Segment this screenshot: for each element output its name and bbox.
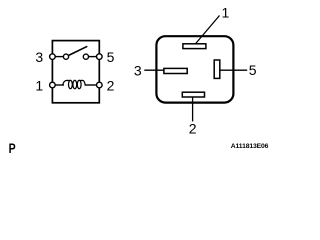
terminal 1 bbox=[50, 82, 56, 88]
wire (switch contact to terminal 5) bbox=[86, 56, 99, 58]
svg-text:5: 5 bbox=[107, 49, 115, 65]
connector body (pinout view) bbox=[156, 36, 233, 102]
slot pin 1 bbox=[183, 44, 206, 49]
wire (terminal 1 to coil) bbox=[52, 84, 64, 86]
svg-text:A111813E06: A111813E06 bbox=[231, 143, 269, 150]
leader line pin 1 bbox=[195, 16, 219, 45]
svg-text:3: 3 bbox=[134, 62, 142, 78]
leader line pin 3 bbox=[144, 69, 164, 71]
svg-text:P: P bbox=[9, 140, 16, 156]
svg-text:5: 5 bbox=[249, 62, 257, 78]
coil L1 bbox=[63, 80, 86, 88]
relay body (left schematic) bbox=[52, 41, 99, 103]
slot pin 3 bbox=[164, 68, 187, 73]
slot pin 2 bbox=[182, 92, 204, 97]
svg-text:2: 2 bbox=[107, 78, 115, 94]
leader line pin 2 bbox=[192, 97, 194, 121]
terminal 2 bbox=[97, 82, 103, 88]
switch contact (movable side) bbox=[63, 54, 68, 59]
wire (terminal 3 to switch contact) bbox=[52, 56, 66, 58]
terminal 5 bbox=[97, 54, 103, 60]
svg-text:3: 3 bbox=[35, 49, 43, 65]
wire (coil to terminal 2) bbox=[85, 84, 100, 86]
switch contact (fixed side) bbox=[83, 54, 88, 59]
svg-text:1: 1 bbox=[35, 78, 43, 94]
svg-text:1: 1 bbox=[222, 5, 230, 21]
svg-text:2: 2 bbox=[189, 120, 197, 136]
leader line pin 5 bbox=[220, 69, 247, 71]
slot pin 5 bbox=[214, 60, 220, 78]
switch blade bbox=[68, 46, 87, 55]
terminal 3 bbox=[50, 54, 56, 60]
